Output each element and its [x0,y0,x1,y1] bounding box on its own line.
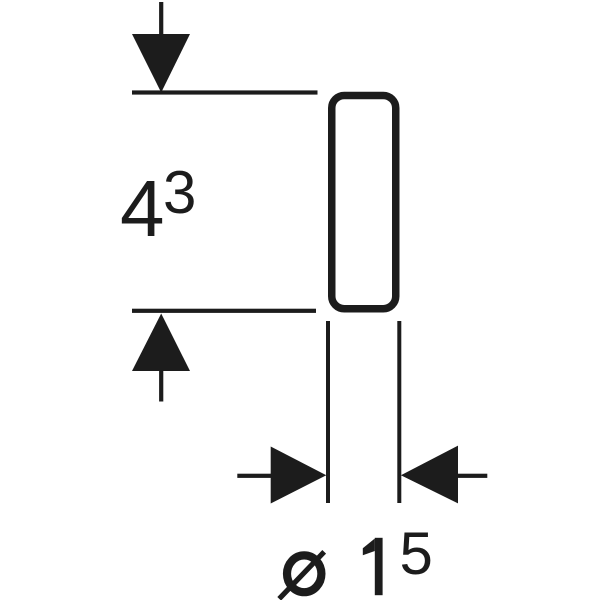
right extension line [397,321,401,503]
top dimension arrow (down) [132,34,190,93]
left width arrow tail wire [237,474,272,478]
right width arrow tail wire [458,474,487,478]
svg-text:3: 3 [163,159,196,226]
bottom dimension arrow (up) [132,314,190,372]
left width arrow (right-pointing) [271,447,327,504]
bottom arrow tail wire [159,371,163,402]
svg-text:5: 5 [400,520,433,587]
lower dimension line [132,309,316,313]
diameter symbol ø (drawn) [279,552,324,599]
top arrow tail wire [159,2,163,35]
upper dimension line [132,90,318,94]
right width arrow (left-pointing) [401,446,458,504]
left extension line [326,321,330,503]
diameter value digit 1 (drawn) [363,538,383,595]
svg-text:4: 4 [120,164,165,253]
part outline: rounded pill [332,95,396,308]
